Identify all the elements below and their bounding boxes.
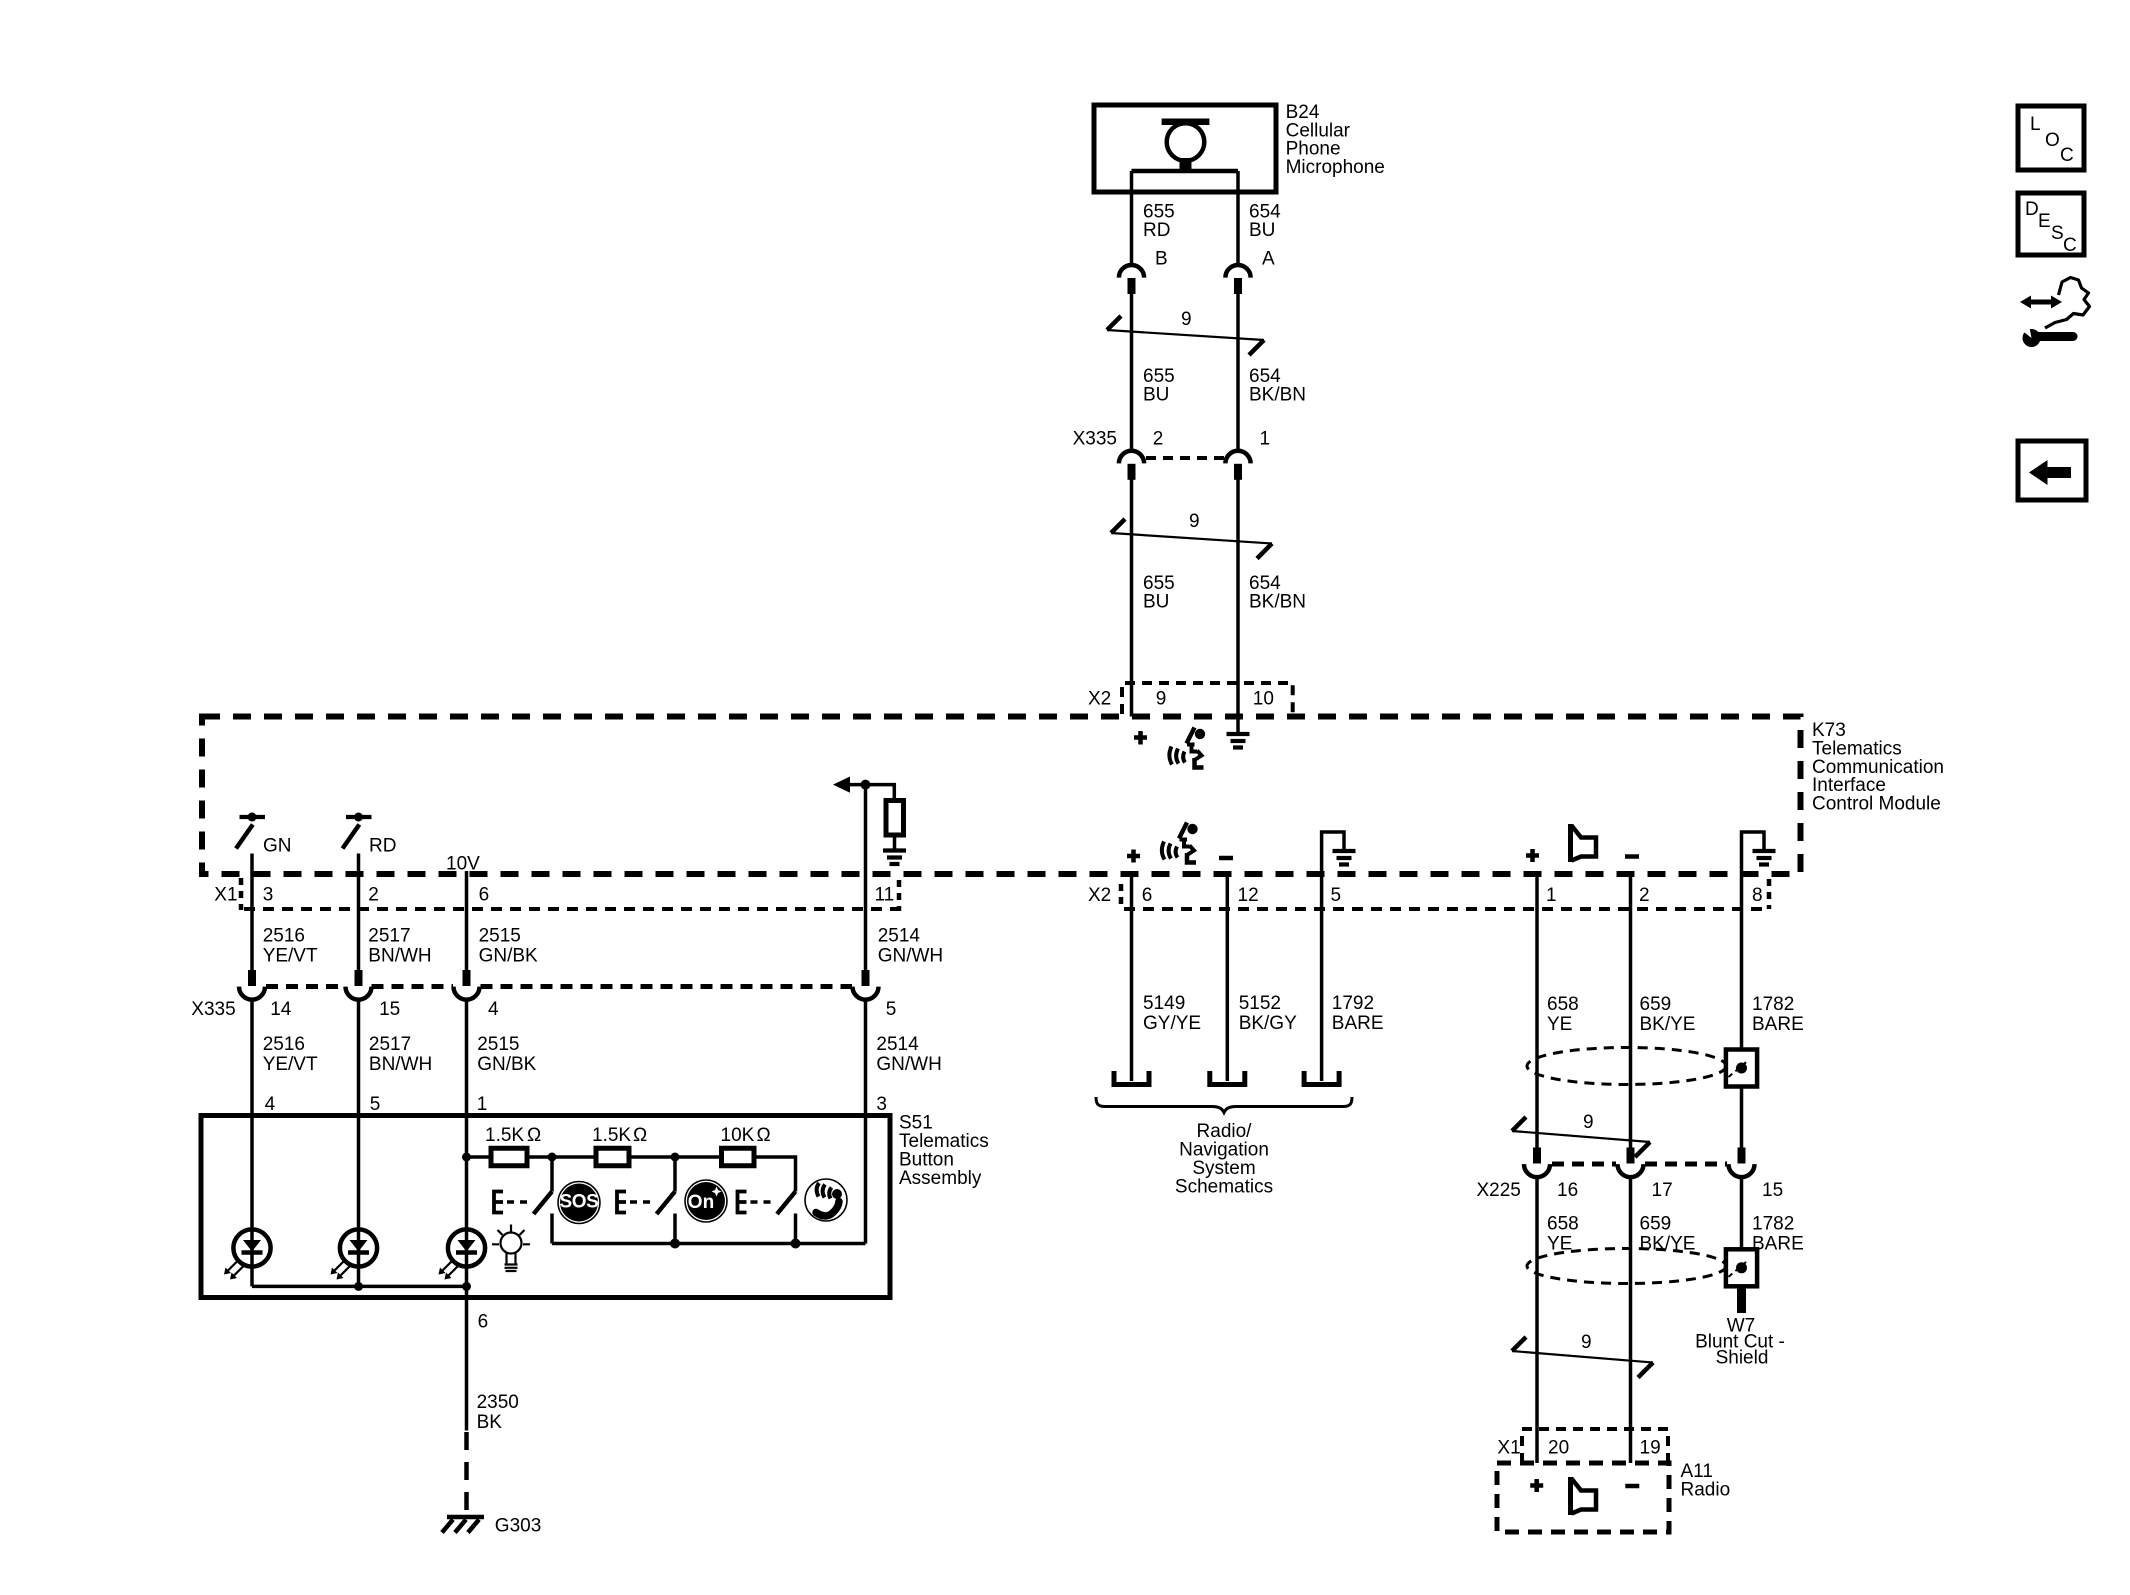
svg-text:BN/WH: BN/WH [369,1054,432,1075]
svg-text:3: 3 [263,885,274,906]
svg-text:1.5K: 1.5K [592,1125,631,1146]
svg-text:2514: 2514 [876,1034,919,1055]
svg-text:16: 16 [1557,1180,1578,1201]
svg-text:9: 9 [1181,309,1192,330]
svg-text:X335: X335 [191,999,235,1020]
svg-text:658: 658 [1547,1214,1579,1235]
svg-text:YE: YE [1547,1014,1572,1035]
svg-text:Ω: Ω [757,1125,771,1146]
svg-text:2: 2 [1639,885,1650,906]
svg-text:659: 659 [1640,994,1672,1015]
svg-text:BK/GY: BK/GY [1239,1013,1297,1034]
svg-text:GN/WH: GN/WH [878,946,943,967]
svg-text:RD: RD [1143,220,1170,241]
svg-text:X1: X1 [214,885,237,906]
svg-text:5: 5 [886,999,897,1020]
svg-text:BK/BN: BK/BN [1249,592,1306,613]
svg-text:10: 10 [1253,689,1274,710]
svg-text:3: 3 [876,1094,887,1115]
svg-text:YE/VT: YE/VT [263,946,318,967]
svg-text:8: 8 [1752,885,1763,906]
svg-text:1.5K: 1.5K [485,1125,524,1146]
svg-text:1782: 1782 [1752,994,1794,1015]
svg-text:GN: GN [263,836,292,857]
svg-text:1792: 1792 [1332,993,1374,1014]
svg-text:BARE: BARE [1752,1014,1804,1035]
svg-text:Control Module: Control Module [1812,794,1941,815]
svg-text:2514: 2514 [878,926,921,947]
svg-text:BK/YE: BK/YE [1640,1234,1696,1255]
svg-text:BARE: BARE [1752,1234,1804,1255]
svg-text:6: 6 [479,885,490,906]
svg-text:5152: 5152 [1239,993,1281,1014]
svg-text:B: B [1155,249,1168,270]
svg-text:A: A [1262,249,1275,270]
svg-text:L: L [2030,114,2041,135]
svg-text:2515: 2515 [479,926,521,947]
svg-text:BK: BK [477,1412,503,1433]
svg-text:659: 659 [1640,1214,1672,1235]
svg-text:10K: 10K [721,1125,755,1146]
svg-text:2517: 2517 [369,1034,411,1055]
svg-text:5149: 5149 [1143,993,1185,1014]
svg-text:6: 6 [478,1312,489,1333]
svg-text:9: 9 [1581,1332,1592,1353]
svg-text:BK/YE: BK/YE [1640,1014,1696,1035]
svg-text:12: 12 [1238,885,1259,906]
svg-text:2: 2 [368,885,379,906]
svg-text:4: 4 [265,1094,276,1115]
svg-text:X1: X1 [1497,1438,1520,1459]
svg-text:2515: 2515 [477,1034,519,1055]
svg-text:Assembly: Assembly [899,1168,982,1189]
svg-text:2516: 2516 [263,926,305,947]
svg-text:Ω: Ω [527,1125,541,1146]
svg-text:5: 5 [1331,885,1342,906]
svg-text:17: 17 [1652,1180,1673,1201]
svg-text:BARE: BARE [1332,1013,1384,1034]
svg-text:2350: 2350 [477,1392,519,1413]
svg-text:C: C [2060,145,2074,166]
svg-text:9: 9 [1189,511,1200,532]
svg-text:14: 14 [270,999,292,1020]
svg-text:10V: 10V [446,854,480,875]
svg-text:Microphone: Microphone [1286,157,1385,178]
svg-text:9: 9 [1583,1112,1594,1133]
svg-text:BU: BU [1249,220,1275,241]
svg-text:658: 658 [1547,994,1579,1015]
svg-text:Schematics: Schematics [1175,1177,1273,1198]
svg-text:D: D [2025,199,2039,220]
svg-text:BK/BN: BK/BN [1249,385,1306,406]
svg-text:9: 9 [1156,689,1167,710]
svg-text:BN/WH: BN/WH [368,946,431,967]
svg-text:BU: BU [1143,385,1169,406]
svg-text:2517: 2517 [368,926,410,947]
svg-text:1: 1 [477,1094,488,1115]
svg-text:15: 15 [1762,1180,1783,1201]
svg-text:G303: G303 [495,1516,541,1537]
svg-text:GN/BK: GN/BK [479,946,538,967]
svg-text:11: 11 [875,885,895,906]
svg-text:BU: BU [1143,592,1169,613]
svg-text:Radio: Radio [1681,1480,1731,1501]
svg-text:19: 19 [1640,1438,1661,1459]
svg-text:6: 6 [1142,885,1153,906]
svg-text:C: C [2063,235,2077,256]
svg-text:GN/WH: GN/WH [876,1054,941,1075]
svg-text:GY/YE: GY/YE [1143,1013,1201,1034]
svg-text:2516: 2516 [263,1034,305,1055]
svg-text:O: O [2045,130,2060,151]
svg-text:GN/BK: GN/BK [477,1054,536,1075]
svg-text:X225: X225 [1477,1180,1521,1201]
svg-text:X2: X2 [1088,689,1111,710]
svg-text:4: 4 [488,999,499,1020]
svg-text:S: S [2051,223,2064,244]
svg-text:1: 1 [1546,885,1557,906]
svg-text:1: 1 [1260,429,1271,450]
svg-text:5: 5 [370,1094,381,1115]
svg-text:20: 20 [1548,1438,1569,1459]
svg-text:1782: 1782 [1752,1214,1794,1235]
svg-text:Shield: Shield [1716,1348,1769,1369]
svg-text:X2: X2 [1088,885,1111,906]
svg-text:RD: RD [369,836,396,857]
svg-text:X335: X335 [1073,429,1117,450]
svg-text:Ω: Ω [633,1125,647,1146]
svg-text:YE: YE [1547,1234,1572,1255]
svg-text:YE/VT: YE/VT [263,1054,318,1075]
svg-text:E: E [2038,211,2051,232]
svg-text:SOS: SOS [560,1192,599,1213]
svg-text:15: 15 [379,999,400,1020]
svg-text:On: On [688,1192,714,1213]
svg-text:2: 2 [1153,429,1164,450]
